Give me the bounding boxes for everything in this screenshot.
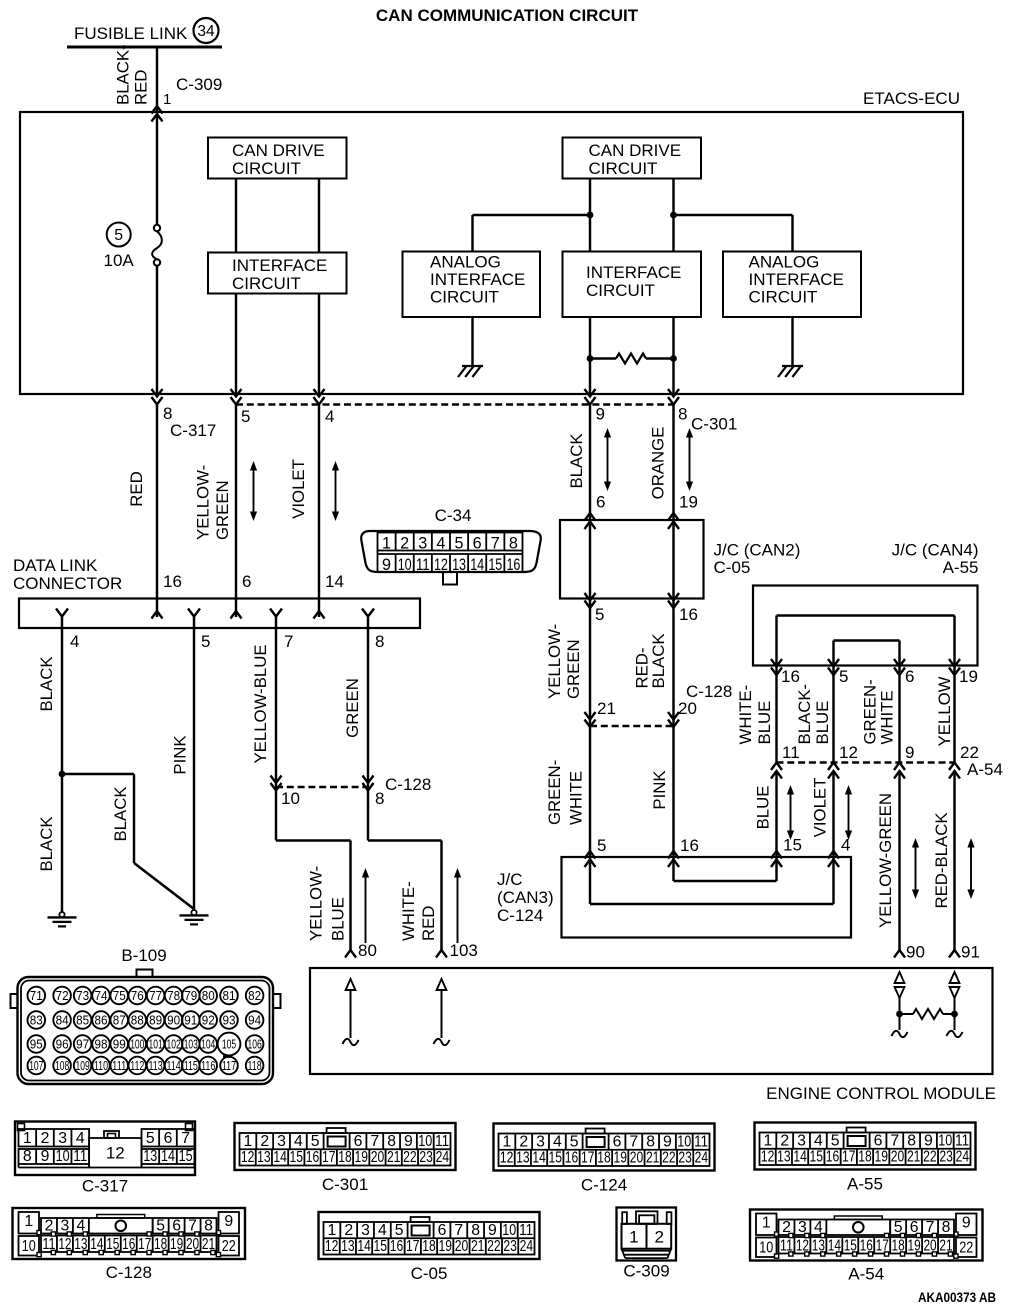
svg-text:8: 8 — [375, 632, 384, 651]
svg-text:GREEN-: GREEN- — [545, 760, 564, 825]
svg-text:23: 23 — [939, 1149, 953, 1166]
svg-text:10: 10 — [938, 1132, 952, 1149]
svg-text:84: 84 — [56, 1013, 69, 1028]
svg-text:5: 5 — [831, 1132, 840, 1149]
svg-text:12: 12 — [761, 1149, 775, 1166]
svg-text:C-309: C-309 — [176, 75, 222, 94]
svg-text:2: 2 — [344, 1222, 353, 1239]
svg-text:16: 16 — [506, 556, 520, 574]
svg-text:22: 22 — [222, 1238, 236, 1255]
svg-text:111: 111 — [112, 1058, 126, 1073]
svg-text:8: 8 — [23, 1148, 32, 1165]
svg-text:GREEN: GREEN — [564, 639, 583, 699]
svg-text:1: 1 — [24, 1213, 33, 1230]
svg-text:CAN DRIVE: CAN DRIVE — [232, 141, 325, 160]
svg-text:BLUE: BLUE — [755, 701, 774, 745]
svg-text:104: 104 — [201, 1037, 215, 1052]
svg-text:RED: RED — [419, 906, 438, 941]
svg-text:103: 103 — [184, 1037, 198, 1052]
svg-text:6: 6 — [354, 1133, 363, 1150]
svg-text:16: 16 — [781, 667, 800, 686]
svg-text:6: 6 — [596, 493, 605, 512]
svg-text:6: 6 — [613, 1133, 622, 1150]
svg-text:15: 15 — [549, 1150, 563, 1167]
svg-text:19: 19 — [679, 493, 698, 512]
svg-text:J/C: J/C — [497, 870, 523, 889]
svg-text:97: 97 — [76, 1037, 89, 1052]
svg-text:BLACK-: BLACK- — [114, 44, 133, 105]
svg-text:GREEN: GREEN — [343, 678, 362, 738]
svg-text:10: 10 — [502, 1222, 516, 1239]
svg-text:16: 16 — [565, 1150, 579, 1167]
svg-text:2: 2 — [780, 1132, 789, 1149]
svg-text:7: 7 — [181, 1130, 190, 1147]
svg-text:12: 12 — [500, 1150, 514, 1167]
svg-text:2: 2 — [260, 1133, 269, 1150]
svg-text:C-317: C-317 — [170, 421, 216, 440]
svg-text:CIRCUIT: CIRCUIT — [586, 281, 655, 300]
svg-text:8: 8 — [375, 789, 384, 808]
svg-text:15: 15 — [179, 1148, 193, 1165]
svg-text:5: 5 — [311, 1133, 320, 1150]
svg-text:BLUE: BLUE — [813, 701, 832, 745]
svg-text:115: 115 — [184, 1058, 198, 1073]
svg-text:AKA00373 AB: AKA00373 AB — [918, 1289, 996, 1305]
svg-text:C-05: C-05 — [714, 558, 751, 577]
svg-text:77: 77 — [149, 988, 162, 1003]
svg-text:5: 5 — [597, 836, 606, 855]
svg-text:78: 78 — [167, 988, 180, 1003]
svg-text:8: 8 — [646, 1133, 655, 1150]
svg-text:7: 7 — [284, 632, 293, 651]
svg-text:9: 9 — [905, 743, 914, 762]
svg-text:CAN COMMUNICATION CIRCUIT: CAN COMMUNICATION CIRCUIT — [376, 6, 639, 25]
svg-text:BLACK: BLACK — [37, 656, 56, 711]
svg-text:3: 3 — [58, 1130, 67, 1147]
svg-text:88: 88 — [131, 1013, 144, 1028]
svg-text:1: 1 — [328, 1222, 337, 1239]
svg-text:C-34: C-34 — [435, 506, 472, 525]
svg-text:89: 89 — [149, 1013, 162, 1028]
svg-text:8: 8 — [509, 535, 518, 553]
svg-text:17: 17 — [322, 1149, 336, 1166]
svg-text:CIRCUIT: CIRCUIT — [589, 159, 658, 178]
svg-text:7: 7 — [890, 1132, 899, 1149]
svg-text:90: 90 — [167, 1013, 180, 1028]
svg-text:10: 10 — [759, 1240, 773, 1257]
svg-text:VIOLET: VIOLET — [811, 778, 830, 838]
svg-text:C-128: C-128 — [106, 1263, 152, 1282]
svg-text:9: 9 — [488, 1222, 497, 1239]
svg-text:3: 3 — [277, 1133, 286, 1150]
svg-text:82: 82 — [248, 988, 261, 1003]
svg-text:3: 3 — [361, 1222, 370, 1239]
svg-text:A-55: A-55 — [847, 1175, 883, 1194]
svg-text:J/C (CAN2): J/C (CAN2) — [714, 541, 801, 560]
svg-text:INTERFACE: INTERFACE — [586, 263, 681, 282]
svg-text:17: 17 — [842, 1149, 856, 1166]
svg-text:1: 1 — [23, 1130, 32, 1147]
svg-text:RED-BLACK: RED-BLACK — [932, 812, 951, 908]
svg-text:15: 15 — [290, 1149, 304, 1166]
svg-text:20: 20 — [630, 1150, 644, 1167]
svg-text:6: 6 — [242, 572, 251, 591]
svg-text:90: 90 — [906, 943, 925, 962]
svg-text:4: 4 — [325, 407, 334, 426]
svg-text:113: 113 — [149, 1058, 163, 1073]
svg-text:4: 4 — [76, 1130, 85, 1147]
svg-text:19: 19 — [874, 1149, 888, 1166]
svg-text:DATA LINK: DATA LINK — [13, 556, 98, 575]
svg-text:4: 4 — [70, 632, 79, 651]
svg-text:85: 85 — [76, 1013, 89, 1028]
svg-text:98: 98 — [95, 1037, 108, 1052]
svg-text:ETACS-ECU: ETACS-ECU — [863, 89, 960, 108]
svg-text:14: 14 — [532, 1150, 546, 1167]
svg-text:22: 22 — [662, 1150, 676, 1167]
svg-text:75: 75 — [113, 988, 126, 1003]
svg-text:13: 13 — [341, 1238, 355, 1255]
svg-text:INTERFACE: INTERFACE — [232, 256, 327, 275]
svg-text:12: 12 — [241, 1149, 255, 1166]
svg-text:14: 14 — [161, 1148, 175, 1165]
svg-text:BLACK: BLACK — [649, 633, 668, 688]
svg-text:J/C (CAN4): J/C (CAN4) — [892, 541, 979, 560]
svg-text:7: 7 — [491, 535, 500, 553]
svg-text:7: 7 — [629, 1133, 638, 1150]
svg-text:RED: RED — [127, 471, 146, 506]
svg-text:CIRCUIT: CIRCUIT — [430, 288, 499, 307]
svg-text:2: 2 — [400, 535, 409, 553]
svg-text:9: 9 — [924, 1132, 933, 1149]
svg-text:VIOLET: VIOLET — [289, 459, 308, 519]
svg-text:24: 24 — [956, 1149, 970, 1166]
svg-text:WHITE: WHITE — [567, 771, 586, 825]
svg-text:RED: RED — [132, 70, 151, 105]
svg-text:10: 10 — [56, 1148, 70, 1165]
svg-text:FUSIBLE LINK: FUSIBLE LINK — [74, 24, 188, 43]
svg-text:C-309: C-309 — [623, 1262, 669, 1281]
svg-text:YELLOW: YELLOW — [935, 676, 954, 746]
svg-text:21: 21 — [646, 1150, 660, 1167]
svg-text:8: 8 — [942, 1219, 951, 1236]
svg-text:23: 23 — [503, 1238, 517, 1255]
svg-text:94: 94 — [248, 1013, 261, 1028]
svg-text:91: 91 — [184, 1013, 197, 1028]
svg-text:93: 93 — [223, 1013, 236, 1028]
svg-text:5: 5 — [241, 407, 250, 426]
svg-text:23: 23 — [419, 1149, 433, 1166]
svg-text:11: 11 — [694, 1133, 708, 1150]
svg-text:11: 11 — [416, 556, 430, 574]
svg-text:8: 8 — [204, 1218, 213, 1235]
svg-text:1: 1 — [382, 535, 391, 553]
svg-text:16: 16 — [390, 1238, 404, 1255]
svg-text:ANALOG: ANALOG — [430, 253, 501, 272]
svg-text:C-128: C-128 — [686, 682, 732, 701]
svg-text:117: 117 — [222, 1058, 236, 1073]
svg-text:1: 1 — [762, 1215, 771, 1232]
svg-text:14: 14 — [793, 1149, 807, 1166]
svg-text:21: 21 — [597, 699, 616, 718]
svg-text:11: 11 — [782, 743, 800, 762]
svg-text:11: 11 — [73, 1148, 87, 1165]
svg-text:22: 22 — [959, 1240, 973, 1257]
svg-text:6: 6 — [905, 667, 914, 686]
svg-text:10: 10 — [281, 789, 300, 808]
svg-text:C-128: C-128 — [385, 775, 431, 794]
svg-text:YELLOW-BLUE: YELLOW-BLUE — [251, 644, 270, 763]
svg-text:80: 80 — [358, 941, 377, 960]
svg-text:5: 5 — [595, 605, 604, 624]
svg-text:16: 16 — [680, 836, 699, 855]
svg-text:20: 20 — [455, 1238, 469, 1255]
svg-text:10: 10 — [398, 556, 412, 574]
svg-text:103: 103 — [450, 941, 478, 960]
svg-text:21: 21 — [907, 1149, 921, 1166]
svg-text:8: 8 — [387, 1133, 396, 1150]
svg-text:YELLOW-: YELLOW- — [545, 624, 564, 699]
svg-text:102: 102 — [167, 1037, 181, 1052]
svg-text:4: 4 — [841, 836, 850, 855]
svg-text:118: 118 — [248, 1058, 262, 1073]
svg-text:1: 1 — [244, 1133, 253, 1150]
svg-text:71: 71 — [30, 988, 43, 1003]
svg-text:100: 100 — [130, 1037, 144, 1052]
svg-text:16: 16 — [826, 1149, 840, 1166]
svg-text:20: 20 — [371, 1149, 385, 1166]
svg-text:105: 105 — [222, 1037, 236, 1052]
svg-text:9: 9 — [962, 1215, 971, 1232]
svg-text:5: 5 — [395, 1222, 404, 1239]
svg-text:A-54: A-54 — [967, 760, 1003, 779]
svg-text:9: 9 — [404, 1133, 413, 1150]
svg-text:5: 5 — [114, 227, 123, 244]
svg-text:A-54: A-54 — [848, 1265, 884, 1284]
svg-text:87: 87 — [113, 1013, 126, 1028]
svg-text:14: 14 — [273, 1149, 287, 1166]
svg-text:INTERFACE: INTERFACE — [749, 270, 844, 289]
svg-text:BLUE: BLUE — [329, 897, 348, 941]
svg-text:72: 72 — [56, 988, 69, 1003]
svg-text:5: 5 — [570, 1133, 579, 1150]
svg-text:22: 22 — [487, 1238, 501, 1255]
svg-text:CIRCUIT: CIRCUIT — [232, 159, 301, 178]
svg-text:BLUE: BLUE — [754, 786, 773, 830]
svg-text:22: 22 — [403, 1149, 417, 1166]
svg-text:74: 74 — [95, 988, 108, 1003]
svg-text:8: 8 — [678, 405, 687, 424]
svg-text:13: 13 — [516, 1150, 530, 1167]
svg-text:WHITE: WHITE — [878, 690, 897, 744]
svg-text:16: 16 — [306, 1149, 320, 1166]
svg-text:107: 107 — [29, 1058, 43, 1073]
svg-text:3: 3 — [536, 1133, 545, 1150]
svg-text:12: 12 — [839, 743, 858, 762]
svg-text:112: 112 — [130, 1058, 144, 1073]
svg-text:12: 12 — [325, 1238, 339, 1255]
svg-text:18: 18 — [858, 1149, 872, 1166]
svg-text:(CAN3): (CAN3) — [497, 888, 554, 907]
svg-text:7: 7 — [370, 1133, 379, 1150]
svg-text:5: 5 — [839, 667, 848, 686]
svg-text:4: 4 — [294, 1133, 303, 1150]
svg-text:YELLOW-: YELLOW- — [194, 465, 213, 540]
svg-text:GREEN: GREEN — [213, 480, 232, 540]
svg-text:9: 9 — [224, 1213, 233, 1230]
svg-text:WHITE-: WHITE- — [736, 685, 755, 745]
svg-text:WHITE-: WHITE- — [399, 881, 418, 941]
svg-text:14: 14 — [357, 1238, 371, 1255]
svg-text:21: 21 — [387, 1149, 401, 1166]
svg-text:83: 83 — [30, 1013, 43, 1028]
svg-text:10: 10 — [677, 1133, 691, 1150]
svg-text:109: 109 — [76, 1058, 90, 1073]
svg-text:15: 15 — [374, 1238, 388, 1255]
svg-text:2: 2 — [519, 1133, 528, 1150]
svg-text:81: 81 — [223, 988, 236, 1003]
svg-text:13: 13 — [257, 1149, 271, 1166]
svg-text:91: 91 — [961, 943, 980, 962]
svg-text:2: 2 — [41, 1130, 50, 1147]
svg-text:14: 14 — [325, 572, 344, 591]
svg-text:5: 5 — [455, 535, 464, 553]
svg-text:80: 80 — [202, 988, 215, 1003]
svg-text:3: 3 — [797, 1132, 806, 1149]
svg-text:CONNECTOR: CONNECTOR — [13, 574, 122, 593]
svg-text:79: 79 — [184, 988, 197, 1003]
svg-text:7: 7 — [454, 1222, 463, 1239]
svg-text:CIRCUIT: CIRCUIT — [749, 288, 818, 307]
svg-text:4: 4 — [378, 1222, 387, 1239]
svg-text:18: 18 — [422, 1238, 436, 1255]
svg-text:21: 21 — [471, 1238, 485, 1255]
svg-text:18: 18 — [338, 1149, 352, 1166]
svg-text:6: 6 — [473, 535, 482, 553]
svg-text:YELLOW-: YELLOW- — [307, 866, 326, 941]
svg-text:23: 23 — [678, 1150, 692, 1167]
svg-text:6: 6 — [164, 1130, 173, 1147]
svg-text:8: 8 — [907, 1132, 916, 1149]
svg-text:BLACK-: BLACK- — [795, 684, 814, 745]
svg-text:13: 13 — [143, 1148, 157, 1165]
svg-text:BLACK: BLACK — [567, 433, 586, 488]
svg-text:110: 110 — [94, 1058, 108, 1073]
svg-text:INTERFACE: INTERFACE — [430, 270, 525, 289]
svg-text:5: 5 — [146, 1130, 155, 1147]
svg-text:15: 15 — [810, 1149, 824, 1166]
svg-text:9: 9 — [596, 405, 605, 424]
svg-text:19: 19 — [354, 1149, 368, 1166]
svg-text:18: 18 — [597, 1150, 611, 1167]
svg-text:24: 24 — [436, 1149, 450, 1166]
svg-text:C-317: C-317 — [82, 1177, 128, 1196]
svg-text:19: 19 — [613, 1150, 627, 1167]
svg-text:12: 12 — [106, 1144, 125, 1163]
svg-text:24: 24 — [520, 1238, 534, 1255]
svg-text:BLACK: BLACK — [37, 816, 56, 871]
svg-text:C-301: C-301 — [691, 415, 737, 434]
svg-text:ANALOG: ANALOG — [749, 253, 820, 272]
svg-text:86: 86 — [95, 1013, 108, 1028]
svg-text:13: 13 — [777, 1149, 791, 1166]
svg-text:17: 17 — [581, 1150, 595, 1167]
svg-text:1: 1 — [163, 91, 171, 108]
svg-text:24: 24 — [695, 1150, 709, 1167]
svg-text:10A: 10A — [104, 251, 135, 270]
svg-text:6: 6 — [874, 1132, 883, 1149]
svg-text:9: 9 — [663, 1133, 672, 1150]
svg-text:4: 4 — [436, 535, 445, 553]
svg-text:22: 22 — [923, 1149, 937, 1166]
svg-text:CIRCUIT: CIRCUIT — [232, 274, 301, 293]
svg-text:ORANGE: ORANGE — [648, 427, 667, 500]
svg-text:C-05: C-05 — [411, 1264, 448, 1283]
svg-text:2: 2 — [654, 1228, 663, 1247]
svg-text:6: 6 — [438, 1222, 447, 1239]
svg-text:5: 5 — [201, 632, 210, 651]
svg-text:11: 11 — [519, 1222, 533, 1239]
svg-text:116: 116 — [201, 1058, 215, 1073]
svg-text:A-55: A-55 — [943, 558, 979, 577]
svg-text:4: 4 — [553, 1133, 562, 1150]
svg-text:9: 9 — [382, 556, 391, 574]
svg-text:YELLOW-GREEN: YELLOW-GREEN — [876, 793, 895, 928]
svg-text:17: 17 — [406, 1238, 420, 1255]
svg-text:20: 20 — [678, 699, 697, 718]
svg-text:73: 73 — [76, 988, 89, 1003]
svg-text:99: 99 — [113, 1037, 126, 1052]
svg-text:BLACK: BLACK — [111, 786, 130, 841]
svg-text:14: 14 — [470, 556, 484, 574]
svg-text:19: 19 — [959, 667, 978, 686]
svg-text:101: 101 — [149, 1037, 163, 1052]
svg-text:B-109: B-109 — [121, 946, 166, 965]
svg-text:9: 9 — [41, 1148, 50, 1165]
svg-text:CAN DRIVE: CAN DRIVE — [589, 141, 682, 160]
svg-text:1: 1 — [764, 1132, 773, 1149]
svg-text:34: 34 — [197, 23, 215, 40]
svg-text:1: 1 — [503, 1133, 512, 1150]
svg-text:16: 16 — [163, 572, 182, 591]
svg-text:11: 11 — [955, 1132, 969, 1149]
svg-text:3: 3 — [418, 535, 427, 553]
svg-text:92: 92 — [202, 1013, 215, 1028]
svg-text:15: 15 — [488, 556, 502, 574]
svg-text:19: 19 — [438, 1238, 452, 1255]
svg-text:106: 106 — [248, 1037, 262, 1052]
svg-text:PINK: PINK — [171, 735, 190, 774]
svg-text:20: 20 — [891, 1149, 905, 1166]
svg-text:76: 76 — [131, 988, 144, 1003]
svg-text:C-124: C-124 — [497, 906, 543, 925]
svg-text:1: 1 — [629, 1228, 638, 1247]
svg-text:8: 8 — [471, 1222, 480, 1239]
svg-text:11: 11 — [435, 1133, 449, 1150]
svg-text:108: 108 — [55, 1058, 69, 1073]
svg-text:PINK: PINK — [650, 770, 669, 809]
svg-text:ENGINE CONTROL MODULE: ENGINE CONTROL MODULE — [766, 1084, 996, 1103]
svg-text:C-124: C-124 — [581, 1176, 627, 1195]
svg-text:16: 16 — [679, 605, 698, 624]
svg-text:95: 95 — [30, 1037, 43, 1052]
svg-text:C-301: C-301 — [322, 1175, 368, 1194]
svg-text:10: 10 — [22, 1238, 36, 1255]
svg-text:15: 15 — [783, 836, 802, 855]
svg-text:4: 4 — [814, 1132, 823, 1149]
svg-text:114: 114 — [167, 1058, 181, 1073]
svg-text:96: 96 — [56, 1037, 69, 1052]
